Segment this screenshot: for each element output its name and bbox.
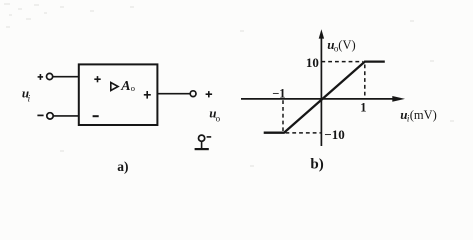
- sign at bottom input terminal [37, 114, 43, 116]
svg-text:−1: −1 [272, 87, 285, 101]
svg-text:i: i [28, 94, 31, 104]
input voltage label u_i [22, 86, 31, 104]
svg-text:−10: −10 [324, 127, 344, 142]
wire: block output to output terminal [157, 93, 190, 95]
triangle amplifier symbol inside block [111, 83, 118, 91]
svg-text:b): b) [310, 157, 323, 173]
horizontal axis label u_i(mV) [400, 107, 436, 124]
dashed guide: vertical at -1 [282, 100, 284, 131]
+ polarity mark inside block (non-inverting input) [94, 76, 100, 82]
svg-text:(mV): (mV) [410, 108, 437, 122]
svg-text:(V): (V) [338, 38, 355, 52]
dashed guide: horizontal at +10 [321, 61, 363, 63]
svg-text:10: 10 [306, 55, 319, 70]
gain value label A_o [120, 79, 135, 94]
bottom input terminal (circle) [47, 113, 53, 119]
output terminal (circle) [190, 91, 196, 97]
+ sign at output terminal [206, 91, 213, 97]
top input terminal (circle) [47, 73, 53, 79]
wire: top input terminal to block [53, 76, 79, 78]
faint scan noise speckles (background texture) [4, 3, 454, 167]
+ sign at top input terminal [38, 74, 44, 80]
wire: stem from negative terminal to ground bar [201, 141, 203, 148]
vertical axis label u_o(V) [327, 37, 355, 53]
+ polarity mark inside block (output side) [144, 91, 151, 99]
- polarity mark inside block (inverting input) [93, 115, 99, 117]
dashed guide: horizontal at -10 [286, 132, 321, 134]
negative output terminal (circle) [199, 135, 205, 141]
output voltage label u_o [209, 106, 220, 124]
svg-text:o: o [131, 83, 135, 93]
transfer characteristic curve [264, 62, 385, 133]
- sign at negative output terminal [207, 136, 212, 138]
ground bar [195, 148, 209, 150]
horizontal axis arrowhead [392, 96, 405, 102]
svg-text:1: 1 [360, 101, 366, 115]
wire: bottom input terminal to block [53, 115, 79, 117]
horizontal axis u_i [241, 98, 394, 100]
svg-text:A: A [120, 79, 130, 94]
op-amp block A_o (rectangle body) [79, 64, 158, 125]
vertical axis u_o [320, 37, 322, 147]
dashed guide: vertical at +1 [364, 65, 366, 98]
svg-text:a): a) [117, 159, 128, 174]
svg-text:o: o [216, 114, 221, 124]
vertical axis arrowhead [319, 29, 324, 38]
